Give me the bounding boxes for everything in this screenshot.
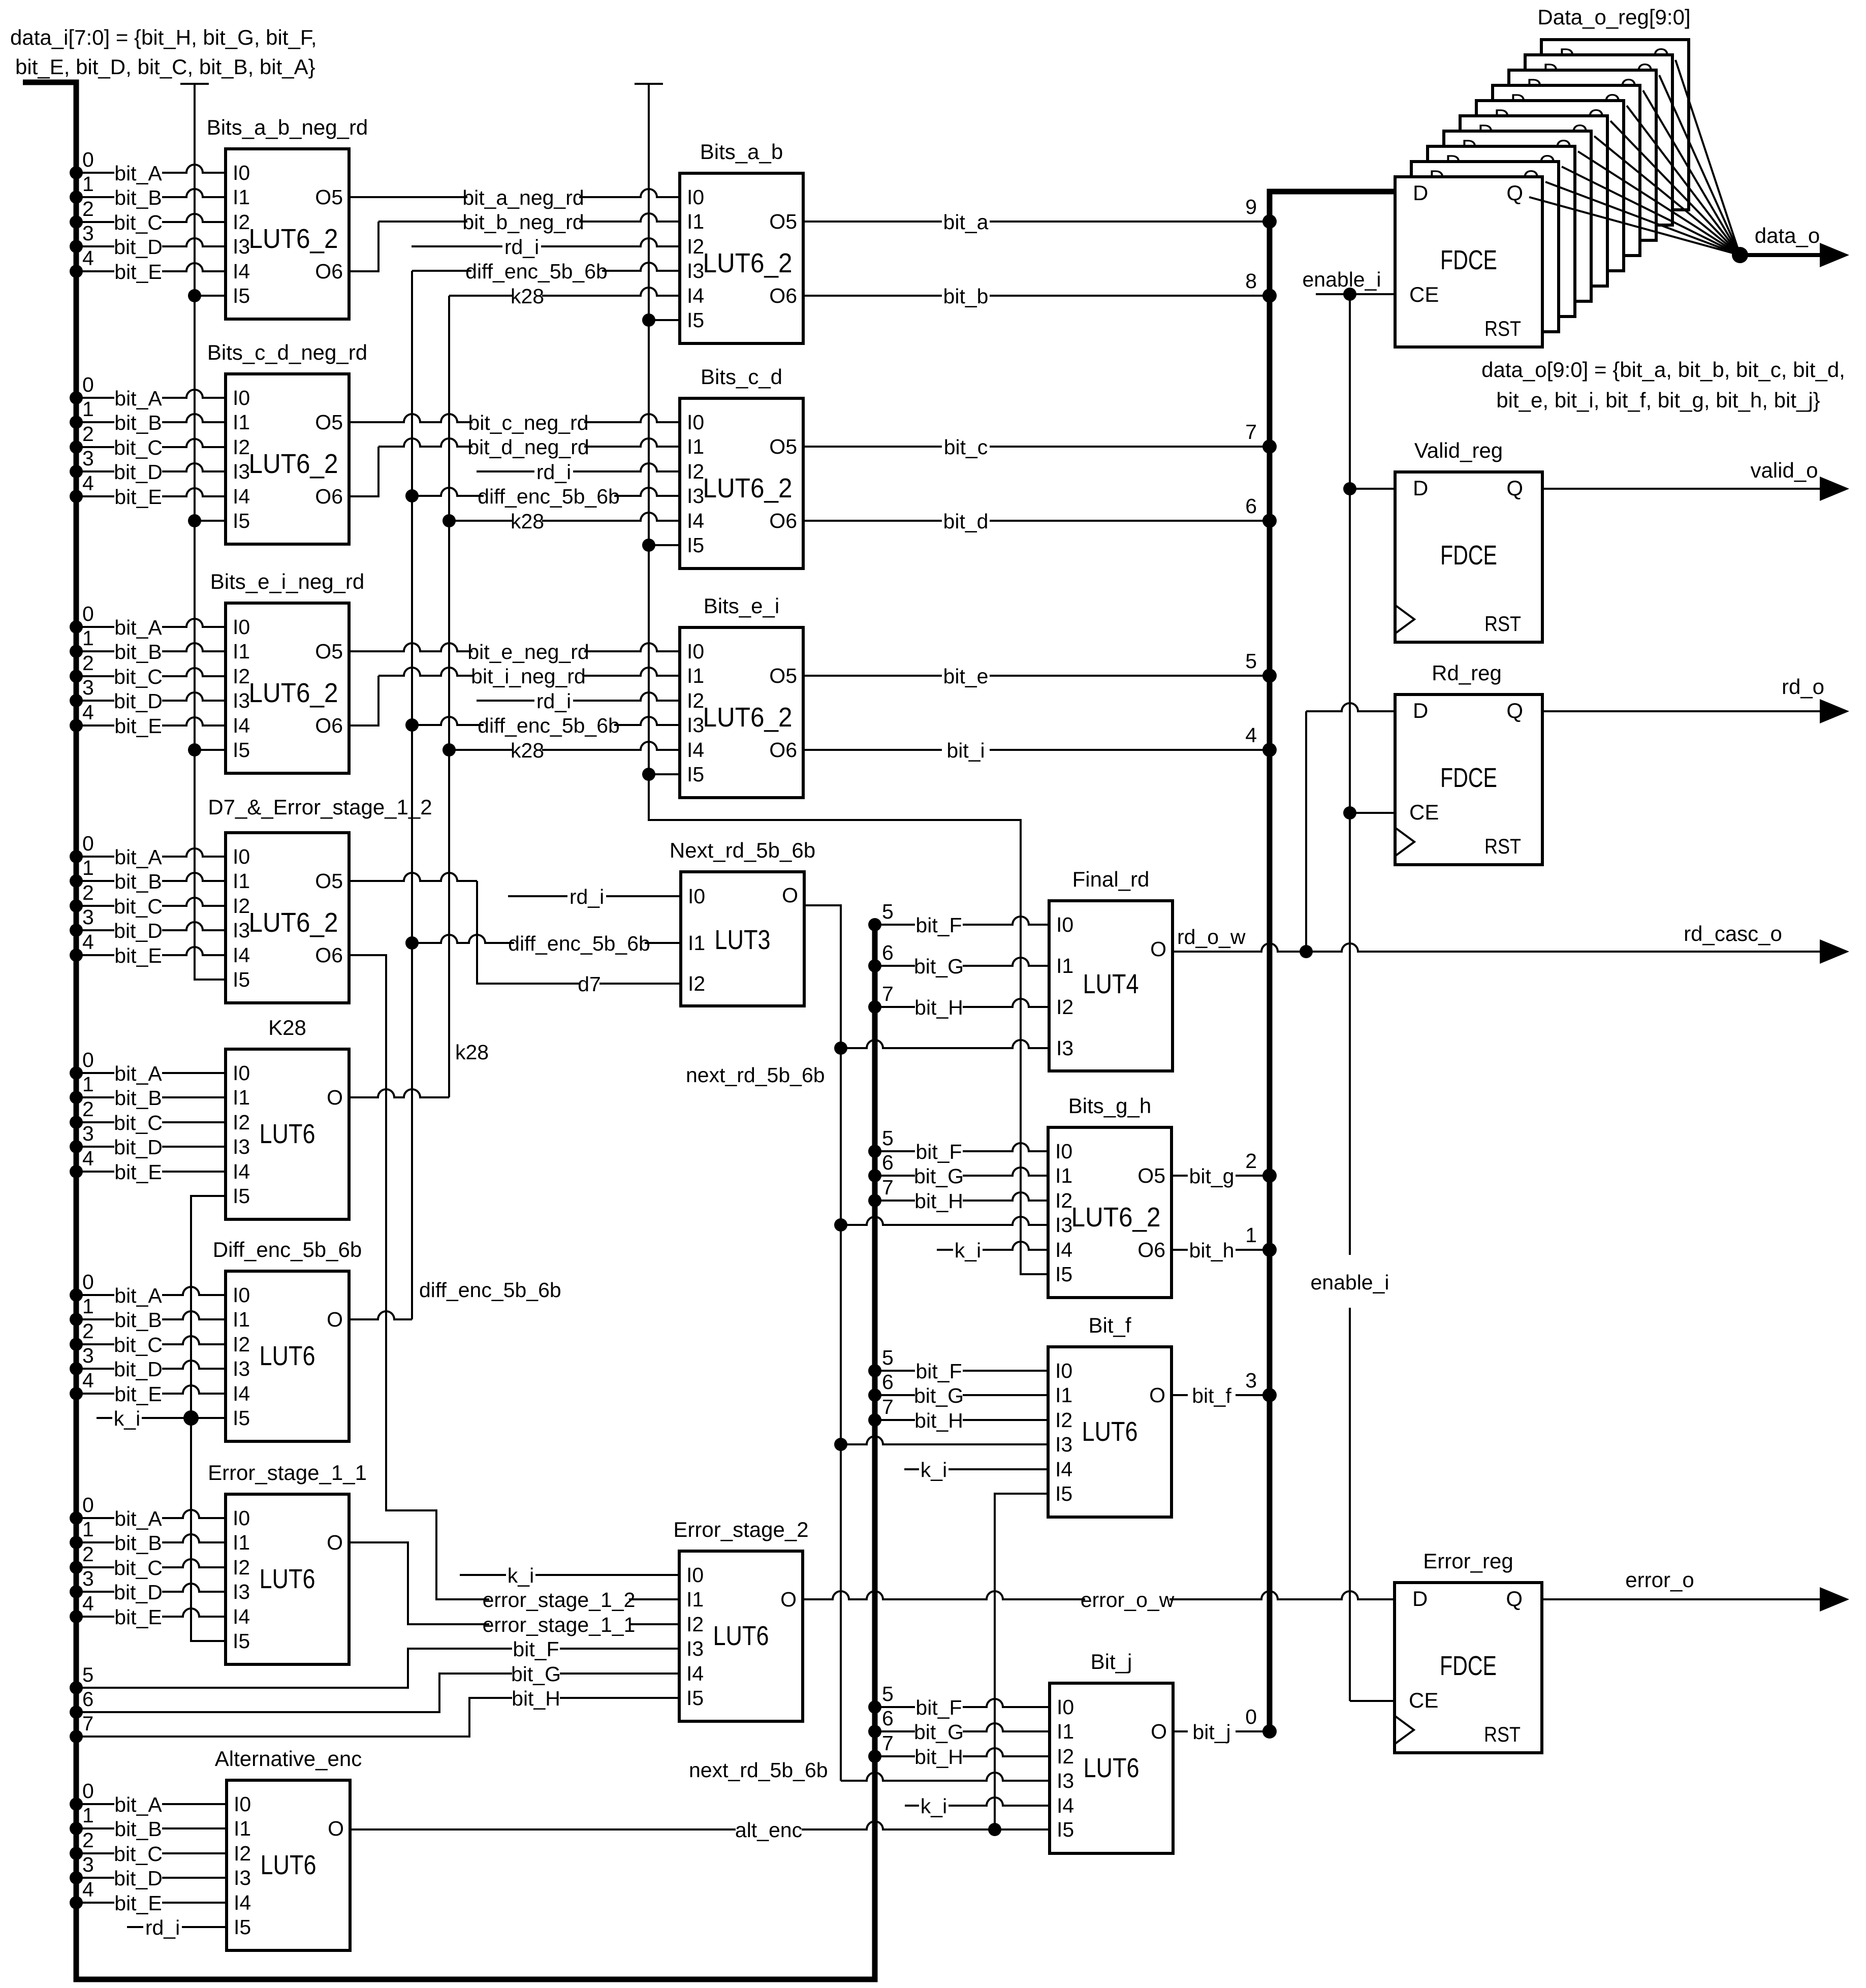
svg-text:LUT6_2: LUT6_2 — [1071, 1202, 1161, 1233]
svg-text:I5: I5 — [233, 1629, 250, 1653]
svg-text:k28: k28 — [511, 510, 544, 533]
svg-text:RST: RST — [1484, 834, 1521, 858]
svg-text:I3: I3 — [1057, 1769, 1074, 1792]
svg-text:Q: Q — [1506, 1587, 1523, 1611]
svg-text:I5: I5 — [687, 763, 704, 786]
svg-text:LUT6: LUT6 — [261, 1850, 317, 1880]
net bit_g — [1172, 1175, 1270, 1177]
svg-text:I0: I0 — [1056, 913, 1073, 936]
svg-text:bit_E: bit_E — [114, 485, 162, 509]
svg-text:LUT6_2: LUT6_2 — [249, 907, 338, 938]
svg-text:bit_C: bit_C — [114, 436, 163, 459]
wire data_i[0] bit_A tap to Alternative_enc I0 — [70, 1797, 83, 1811]
svg-text:0: 0 — [82, 832, 94, 855]
svg-text:O: O — [1151, 1720, 1167, 1743]
svg-text:0: 0 — [82, 373, 94, 396]
net rd_i stub Bits_a_b — [412, 238, 680, 246]
svg-text:k_i: k_i — [508, 1564, 534, 1587]
svg-text:bit_D: bit_D — [114, 689, 163, 713]
Bit_j LUT6 — [1050, 1683, 1173, 1853]
wire data_i[4] bit_E tap to Error_stage_1_1 I4 — [70, 1610, 83, 1623]
svg-text:diff_enc_5b_6b: diff_enc_5b_6b — [478, 714, 620, 737]
const1 net col1 — [180, 83, 209, 85]
wire data_i[3] bit_D tap to Bits_c_d_neg_rd I3 — [70, 465, 83, 478]
wire Q of Data_o_reg[0] to data_o node — [1529, 197, 1740, 255]
svg-text:0: 0 — [82, 148, 94, 171]
svg-text:I3: I3 — [233, 689, 250, 712]
svg-text:LUT6: LUT6 — [1084, 1753, 1140, 1783]
svg-text:bit_H: bit_H — [512, 1687, 560, 1710]
svg-text:2: 2 — [82, 422, 94, 446]
net alt_enc from Alternative_enc O to Bit_f/Bit_j I5 — [349, 1821, 1050, 1829]
svg-text:O6: O6 — [769, 509, 797, 532]
svg-text:bit_B: bit_B — [114, 640, 162, 664]
svg-text:I0: I0 — [233, 615, 250, 639]
svg-text:bit_B: bit_B — [114, 1086, 162, 1110]
svg-text:D7_&_Error_stage_1_2: D7_&_Error_stage_1_2 — [208, 795, 432, 819]
Bits_a_b I5 wire — [642, 313, 655, 327]
svg-text:O6: O6 — [315, 485, 343, 508]
svg-text:2: 2 — [82, 1542, 94, 1566]
svg-text:3: 3 — [82, 1853, 94, 1876]
svg-text:I1: I1 — [233, 1086, 250, 1109]
wire data_i[2] bit_C tap to Diff_enc_5b_6b I2 — [70, 1338, 83, 1351]
svg-text:k_i: k_i — [955, 1239, 981, 1262]
wire data_i[2] bit_C tap to Alternative_enc I2 — [70, 1847, 83, 1860]
svg-text:LUT6: LUT6 — [1082, 1416, 1138, 1447]
net error_o_w — [803, 1591, 1395, 1599]
svg-text:rd_i: rd_i — [536, 460, 571, 484]
svg-text:4: 4 — [82, 1878, 94, 1901]
svg-text:4: 4 — [82, 246, 94, 270]
svg-text:FDCE: FDCE — [1440, 1651, 1497, 1681]
svg-text:I3: I3 — [1056, 1036, 1073, 1060]
svg-text:bit_g: bit_g — [1189, 1164, 1235, 1188]
Error_stage_1_1 LUT6 — [226, 1494, 349, 1664]
svg-text:O5: O5 — [315, 411, 343, 434]
data_i bus (thick) — [23, 82, 875, 1979]
K28 LUT6 — [226, 1049, 349, 1219]
svg-text:I1: I1 — [1055, 1383, 1072, 1407]
wire data_i[6] bit_G tap to Bit_f I1 — [868, 1389, 881, 1402]
FDCE Data_o_reg bit 8 — [1525, 55, 1672, 225]
svg-text:bit_E, bit_D, bit_C, bit_B, bi: bit_E, bit_D, bit_C, bit_B, bit_A} — [15, 55, 315, 79]
svg-text:4: 4 — [1245, 723, 1257, 747]
wire data_i[4] bit_E tap to K28 I4 — [70, 1165, 83, 1178]
svg-text:3: 3 — [82, 222, 94, 245]
svg-text:I0: I0 — [233, 161, 250, 184]
net error_stage_1_2 from D7 O6 to Error_stage_2 I1 — [349, 955, 679, 1599]
svg-text:LUT6_2: LUT6_2 — [703, 702, 793, 733]
svg-text:LUT6: LUT6 — [713, 1621, 769, 1651]
svg-text:O: O — [1149, 1383, 1165, 1407]
svg-text:O6: O6 — [315, 260, 343, 283]
wire data_i[3] bit_D tap to D7_&_Error_stage_1_2 I3 — [70, 924, 83, 937]
wire data_i[4] bit_E tap to D7_&_Error_stage_1_2 I4 — [70, 949, 83, 962]
net enable_i — [1316, 293, 1395, 295]
wire Q of Data_o_reg[3] to data_o node — [1578, 151, 1740, 255]
svg-text:rd_i: rd_i — [145, 1916, 180, 1939]
svg-text:bit_e: bit_e — [943, 665, 989, 688]
wire data_i[7] bit_H tap to Final_rd I2 — [868, 1000, 881, 1014]
svg-text:I1: I1 — [233, 185, 250, 209]
net k_i stub Bits_g_h I4 — [937, 1242, 1048, 1250]
svg-text:bit_E: bit_E — [114, 944, 162, 967]
svg-text:bit_A: bit_A — [114, 616, 162, 639]
wire data_i[1] bit_B tap to D7_&_Error_stage_1_2 I1 — [70, 874, 83, 888]
svg-text:Valid_reg: Valid_reg — [1414, 438, 1503, 462]
svg-text:bit_B: bit_B — [114, 186, 162, 209]
svg-text:bit_F: bit_F — [915, 1360, 962, 1383]
wire data_i[3] bit_D tap to Error_stage_1_1 I3 — [70, 1585, 83, 1598]
svg-text:bit_d: bit_d — [943, 510, 989, 533]
svg-text:0: 0 — [82, 1270, 94, 1293]
FDCE Data_o_reg bit 6 — [1493, 85, 1640, 256]
svg-text:I0: I0 — [233, 845, 250, 868]
svg-text:1: 1 — [82, 1804, 94, 1827]
svg-text:I5: I5 — [1055, 1482, 1072, 1505]
svg-text:alt_enc: alt_enc — [735, 1818, 802, 1842]
wire data_i[6] bit_G tap to Final_rd I1 — [868, 959, 881, 972]
svg-text:O5: O5 — [315, 640, 343, 663]
svg-text:next_rd_5b_6b: next_rd_5b_6b — [686, 1063, 825, 1087]
svg-text:I3: I3 — [1055, 1433, 1072, 1456]
svg-text:FDCE: FDCE — [1440, 763, 1497, 793]
svg-text:I3: I3 — [233, 1357, 250, 1380]
wire data_i[2] bit_C tap to Bits_e_i_neg_rd I2 — [70, 670, 83, 683]
svg-text:I3: I3 — [233, 1580, 250, 1603]
svg-text:bit_i: bit_i — [946, 739, 985, 762]
svg-text:I3: I3 — [1055, 1213, 1072, 1237]
svg-text:I1: I1 — [687, 664, 704, 687]
Bits_e_i_neg_rd LUT6_2 — [226, 603, 349, 773]
svg-text:2: 2 — [82, 1319, 94, 1343]
net diff_enc_5b_6b stub Bits_a_b — [412, 263, 680, 271]
svg-text:Bits_c_d: Bits_c_d — [701, 365, 782, 389]
svg-text:I1: I1 — [234, 1817, 251, 1840]
Bits_c_d_neg_rd LUT6_2 — [226, 374, 349, 544]
svg-text:7: 7 — [882, 1176, 894, 1199]
svg-text:3: 3 — [82, 905, 94, 929]
svg-text:O6: O6 — [315, 943, 343, 967]
svg-text:I5: I5 — [233, 1184, 250, 1208]
wire Q of Data_o_reg[4] to data_o node — [1594, 136, 1740, 255]
svg-text:Data_o_reg[9:0]: Data_o_reg[9:0] — [1537, 5, 1690, 29]
svg-text:bit_c: bit_c — [944, 435, 988, 459]
net bit_i — [803, 749, 1270, 751]
Bits_c_d I5 wire — [642, 539, 655, 552]
svg-text:5: 5 — [882, 1346, 894, 1369]
svg-text:diff_enc_5b_6b: diff_enc_5b_6b — [419, 1278, 561, 1302]
svg-text:D: D — [1413, 476, 1428, 500]
net next_rd_5b_6b from LUT3 O — [804, 905, 841, 1781]
wire data_i[4] bit_E tap to Bits_e_i_neg_rd I4 — [70, 719, 83, 732]
svg-text:bit_j: bit_j — [1192, 1720, 1230, 1744]
branch next_rd to Final_rd I3 — [834, 1042, 847, 1055]
wire data_i[3] bit_D tap to Bits_a_b_neg_rd I3 — [70, 240, 83, 253]
net bit_e — [803, 675, 1270, 677]
wire data_i[3] bit_D tap to Diff_enc_5b_6b I3 — [70, 1362, 83, 1375]
wire data_i[3] bit_D tap to K28 I3 — [70, 1140, 83, 1153]
svg-text:bit_b: bit_b — [943, 285, 989, 308]
FDCE Data_o_reg bit 5 — [1476, 101, 1624, 271]
svg-text:9: 9 — [1245, 195, 1257, 218]
svg-text:I2: I2 — [233, 210, 250, 234]
svg-text:bit_F: bit_F — [915, 1696, 962, 1719]
svg-text:I1: I1 — [686, 1588, 704, 1611]
svg-text:Q: Q — [1506, 476, 1523, 500]
svg-text:1: 1 — [82, 626, 94, 650]
svg-text:6: 6 — [882, 1370, 894, 1394]
svg-text:Bit_f: Bit_f — [1088, 1313, 1131, 1337]
svg-text:I4: I4 — [1055, 1458, 1072, 1481]
svg-text:O5: O5 — [315, 869, 343, 893]
svg-text:k_i: k_i — [114, 1407, 140, 1430]
k_i net col1 — [191, 1196, 226, 1641]
junction and I5 wire Bits_c_d_neg_rd — [188, 514, 201, 527]
net error_o — [1541, 1598, 1821, 1600]
wire data_i[5] bit_F tap to Bit_j I0 — [868, 1700, 881, 1714]
wire Q of Data_o_reg[8] to data_o node — [1659, 75, 1740, 255]
wire data_i[0] bit_A tap to K28 I0 — [70, 1066, 83, 1080]
svg-text:0: 0 — [82, 1493, 94, 1517]
svg-text:I5: I5 — [234, 1915, 251, 1939]
svg-text:bit_D: bit_D — [114, 1135, 163, 1159]
wire data_i[4] bit_E tap to Bits_a_b_neg_rd I4 — [70, 265, 83, 278]
svg-text:I1: I1 — [233, 411, 250, 434]
svg-text:I1: I1 — [233, 1308, 250, 1331]
svg-text:Q: Q — [1506, 699, 1523, 722]
svg-text:bit_C: bit_C — [114, 895, 163, 918]
svg-text:bit_A: bit_A — [114, 387, 162, 410]
svg-text:LUT6_2: LUT6_2 — [249, 224, 338, 254]
wire Q of Data_o_reg[7] to data_o node — [1643, 90, 1740, 255]
svg-text:I2: I2 — [233, 665, 250, 688]
svg-text:Bits_e_i: Bits_e_i — [704, 594, 779, 618]
svg-text:D: D — [1412, 1587, 1428, 1611]
svg-text:7: 7 — [882, 1731, 894, 1755]
net bit_d_neg_rd — [349, 447, 378, 496]
svg-text:I1: I1 — [687, 210, 704, 233]
wire data_i[2] bit_C tap to D7_&_Error_stage_1_2 I2 — [70, 899, 83, 912]
svg-text:O5: O5 — [315, 185, 343, 209]
svg-text:2: 2 — [1245, 1149, 1257, 1173]
svg-text:I5: I5 — [233, 284, 250, 307]
svg-text:I2: I2 — [233, 1111, 250, 1134]
svg-text:diff_enc_5b_6b: diff_enc_5b_6b — [478, 485, 620, 508]
svg-text:CE: CE — [1409, 282, 1439, 306]
svg-text:I4: I4 — [687, 284, 704, 307]
svg-text:I2: I2 — [686, 1613, 704, 1636]
svg-text:6: 6 — [1245, 494, 1257, 518]
svg-text:1: 1 — [82, 1295, 94, 1318]
wire data_i[4] bit_E tap to Alternative_enc I4 — [70, 1896, 83, 1909]
wire data_i[0] bit_A tap to Diff_enc_5b_6b I0 — [70, 1288, 83, 1302]
net rd_i stub Bits_c_d — [477, 463, 680, 471]
svg-text:bit_F: bit_F — [915, 1140, 962, 1163]
wire data_i[2] bit_C tap to Error_stage_1_1 I2 — [70, 1561, 83, 1574]
svg-text:Bits_g_h: Bits_g_h — [1068, 1094, 1151, 1118]
svg-text:I3: I3 — [234, 1866, 251, 1889]
svg-text:I0: I0 — [686, 1563, 704, 1587]
svg-text:error_o: error_o — [1625, 1568, 1694, 1592]
svg-text:Error_stage_1_1: Error_stage_1_1 — [208, 1461, 367, 1485]
svg-text:RST: RST — [1484, 612, 1521, 636]
svg-text:6: 6 — [82, 1688, 93, 1711]
FDCE Data_o_reg bit 2 — [1428, 146, 1575, 317]
net bit_f — [1172, 1394, 1270, 1396]
svg-text:O5: O5 — [1137, 1164, 1165, 1187]
wire data_i[2] bit_C tap to K28 I2 — [70, 1116, 83, 1129]
net bit_a_neg_rd — [349, 189, 680, 197]
svg-text:1: 1 — [82, 172, 94, 196]
svg-text:Bits_e_i_neg_rd: Bits_e_i_neg_rd — [210, 570, 365, 593]
svg-text:bit_h: bit_h — [1189, 1239, 1235, 1262]
net diff_enc_5b_6b stub Bits_e_i — [405, 718, 419, 732]
Final_rd LUT4 — [1049, 901, 1173, 1071]
svg-text:bit_E: bit_E — [114, 260, 162, 283]
svg-text:I0: I0 — [233, 1061, 250, 1085]
svg-text:bit_G: bit_G — [914, 1384, 964, 1407]
wire data_i[1] bit_B tap to Bits_e_i_neg_rd I1 — [70, 645, 83, 658]
net rd_i stub Bits_e_i — [477, 692, 680, 701]
svg-text:1: 1 — [1245, 1223, 1257, 1247]
wire data_i[0] bit_A tap to D7_&_Error_stage_1_2 I0 — [70, 850, 83, 863]
k_i stub into Diff_enc I5 — [97, 1417, 226, 1419]
svg-text:I2: I2 — [233, 435, 250, 459]
svg-text:Bits_a_b_neg_rd: Bits_a_b_neg_rd — [207, 115, 368, 139]
Bits_a_b_neg_rd LUT6_2 — [226, 149, 349, 319]
net rd_o_w to Rd_reg D — [1305, 711, 1307, 952]
svg-text:I1: I1 — [688, 931, 705, 955]
wire Q of Data_o_reg[5] to data_o node — [1610, 121, 1740, 255]
svg-text:bit_G: bit_G — [914, 955, 964, 978]
svg-text:I0: I0 — [687, 185, 704, 209]
svg-text:I4: I4 — [233, 260, 250, 283]
svg-text:RST: RST — [1484, 317, 1521, 340]
svg-text:4: 4 — [82, 1592, 94, 1615]
net k28 stub Bits_c_d — [442, 514, 456, 527]
svg-text:O: O — [328, 1817, 344, 1840]
svg-text:O: O — [1150, 937, 1166, 961]
svg-text:7: 7 — [882, 982, 894, 1005]
svg-text:O: O — [327, 1308, 343, 1331]
svg-text:bit_C: bit_C — [114, 1842, 163, 1866]
svg-text:data_o: data_o — [1755, 224, 1820, 247]
net diff_enc_5b_6b stub Bits_c_d — [405, 489, 419, 502]
wire data_i[2] bit_C tap to Bits_c_d_neg_rd I2 — [70, 440, 83, 454]
wire Q of Data_o_reg[6] to data_o node — [1627, 106, 1740, 255]
svg-text:5: 5 — [82, 1664, 93, 1686]
svg-text:I4: I4 — [233, 943, 250, 967]
svg-text:4: 4 — [82, 471, 94, 495]
svg-text:k28: k28 — [511, 739, 544, 762]
svg-text:CE: CE — [1409, 800, 1439, 824]
svg-text:O: O — [327, 1086, 343, 1109]
net error_stage_1_1 from Error_stage_1_1 O to Error_stage_2 I2 — [349, 1542, 679, 1624]
wire data_i[4] bit_E tap to Bits_c_d_neg_rd I4 — [70, 490, 83, 503]
svg-text:I5: I5 — [233, 1406, 250, 1430]
svg-text:bit_E: bit_E — [114, 1891, 162, 1915]
svg-text:bit_E: bit_E — [114, 1382, 162, 1406]
svg-text:rd_o: rd_o — [1782, 675, 1824, 699]
wire data_i[5] bit_F tap to Bit_f I0 — [868, 1364, 881, 1377]
svg-text:I3: I3 — [687, 484, 704, 508]
svg-text:I5: I5 — [1057, 1818, 1074, 1841]
svg-text:bit_D: bit_D — [114, 1358, 163, 1381]
net bit_c — [803, 446, 1270, 448]
svg-text:3: 3 — [82, 1122, 94, 1145]
tap 5 bit_F to Error_stage_2 I3 — [70, 1681, 83, 1694]
svg-text:I2: I2 — [1056, 995, 1073, 1019]
svg-text:I2: I2 — [687, 460, 704, 483]
junction and I5 wire Bits_a_b_neg_rd — [188, 289, 201, 302]
svg-text:rd_o_w: rd_o_w — [1177, 925, 1246, 949]
svg-text:bit_G: bit_G — [914, 1164, 964, 1188]
svg-text:D: D — [1413, 181, 1428, 205]
svg-text:bit_A: bit_A — [114, 1284, 162, 1307]
wire data_i[1] bit_B tap to Diff_enc_5b_6b I1 — [70, 1313, 83, 1326]
net rd_o_w / rd_casc_o — [1172, 943, 1821, 952]
svg-text:2: 2 — [82, 1097, 94, 1121]
wire data_i[1] bit_B tap to Error_stage_1_1 I1 — [70, 1536, 83, 1549]
svg-text:I5: I5 — [233, 738, 250, 762]
wire data_i[2] bit_C tap to Bits_a_b_neg_rd I2 — [70, 215, 83, 229]
svg-text:LUT3: LUT3 — [715, 925, 771, 955]
svg-text:k_i: k_i — [921, 1794, 947, 1818]
svg-text:I1: I1 — [1055, 1164, 1072, 1187]
svg-text:I4: I4 — [233, 485, 250, 508]
svg-text:I4: I4 — [686, 1662, 704, 1685]
svg-text:valid_o: valid_o — [1750, 458, 1818, 482]
net k_i stub Error_stage_2 I0 — [460, 1574, 679, 1576]
net bit_e_neg_rd — [349, 643, 680, 651]
svg-text:Bit_j: Bit_j — [1091, 1650, 1132, 1674]
svg-text:Bits_a_b: Bits_a_b — [700, 140, 783, 164]
svg-text:O6: O6 — [315, 714, 343, 737]
net bit_i_neg_rd — [349, 676, 378, 725]
wire Q of Data_o_reg[9] to data_o node — [1675, 60, 1740, 255]
Bits_a_b LUT6_2 — [680, 173, 803, 343]
svg-text:I0: I0 — [687, 411, 704, 434]
svg-text:2: 2 — [82, 651, 94, 675]
svg-text:rd_i: rd_i — [536, 689, 571, 713]
net k28 vertical — [448, 296, 450, 1097]
net bit_a — [803, 220, 1270, 223]
svg-text:bit_b_neg_rd: bit_b_neg_rd — [462, 210, 584, 234]
branch next_rd to Bits_g_h I3 — [834, 1218, 847, 1232]
svg-text:Q: Q — [1506, 181, 1523, 205]
net bit_h — [1172, 1249, 1270, 1251]
Bits_e_i I5 wire — [642, 768, 655, 781]
wire data_i[5] bit_F tap to Final_rd I0 — [868, 918, 881, 931]
svg-text:4: 4 — [82, 930, 94, 954]
svg-text:3: 3 — [1245, 1369, 1257, 1392]
svg-text:I2: I2 — [1055, 1189, 1072, 1212]
svg-text:O6: O6 — [1137, 1238, 1165, 1261]
svg-text:bit_F: bit_F — [915, 913, 962, 937]
svg-text:3: 3 — [82, 676, 94, 699]
svg-text:enable_i: enable_i — [1302, 268, 1381, 291]
svg-text:bit_e_neg_rd: bit_e_neg_rd — [467, 640, 589, 664]
wire data_i[1] bit_B tap to Bits_c_d_neg_rd I1 — [70, 416, 83, 429]
svg-text:diff_enc_5b_6b: diff_enc_5b_6b — [465, 260, 608, 283]
svg-text:I0: I0 — [1057, 1695, 1074, 1719]
svg-text:I0: I0 — [233, 1283, 250, 1307]
svg-text:I0: I0 — [1055, 1140, 1072, 1163]
svg-text:k28: k28 — [455, 1040, 489, 1064]
net rd_o — [1541, 710, 1821, 712]
